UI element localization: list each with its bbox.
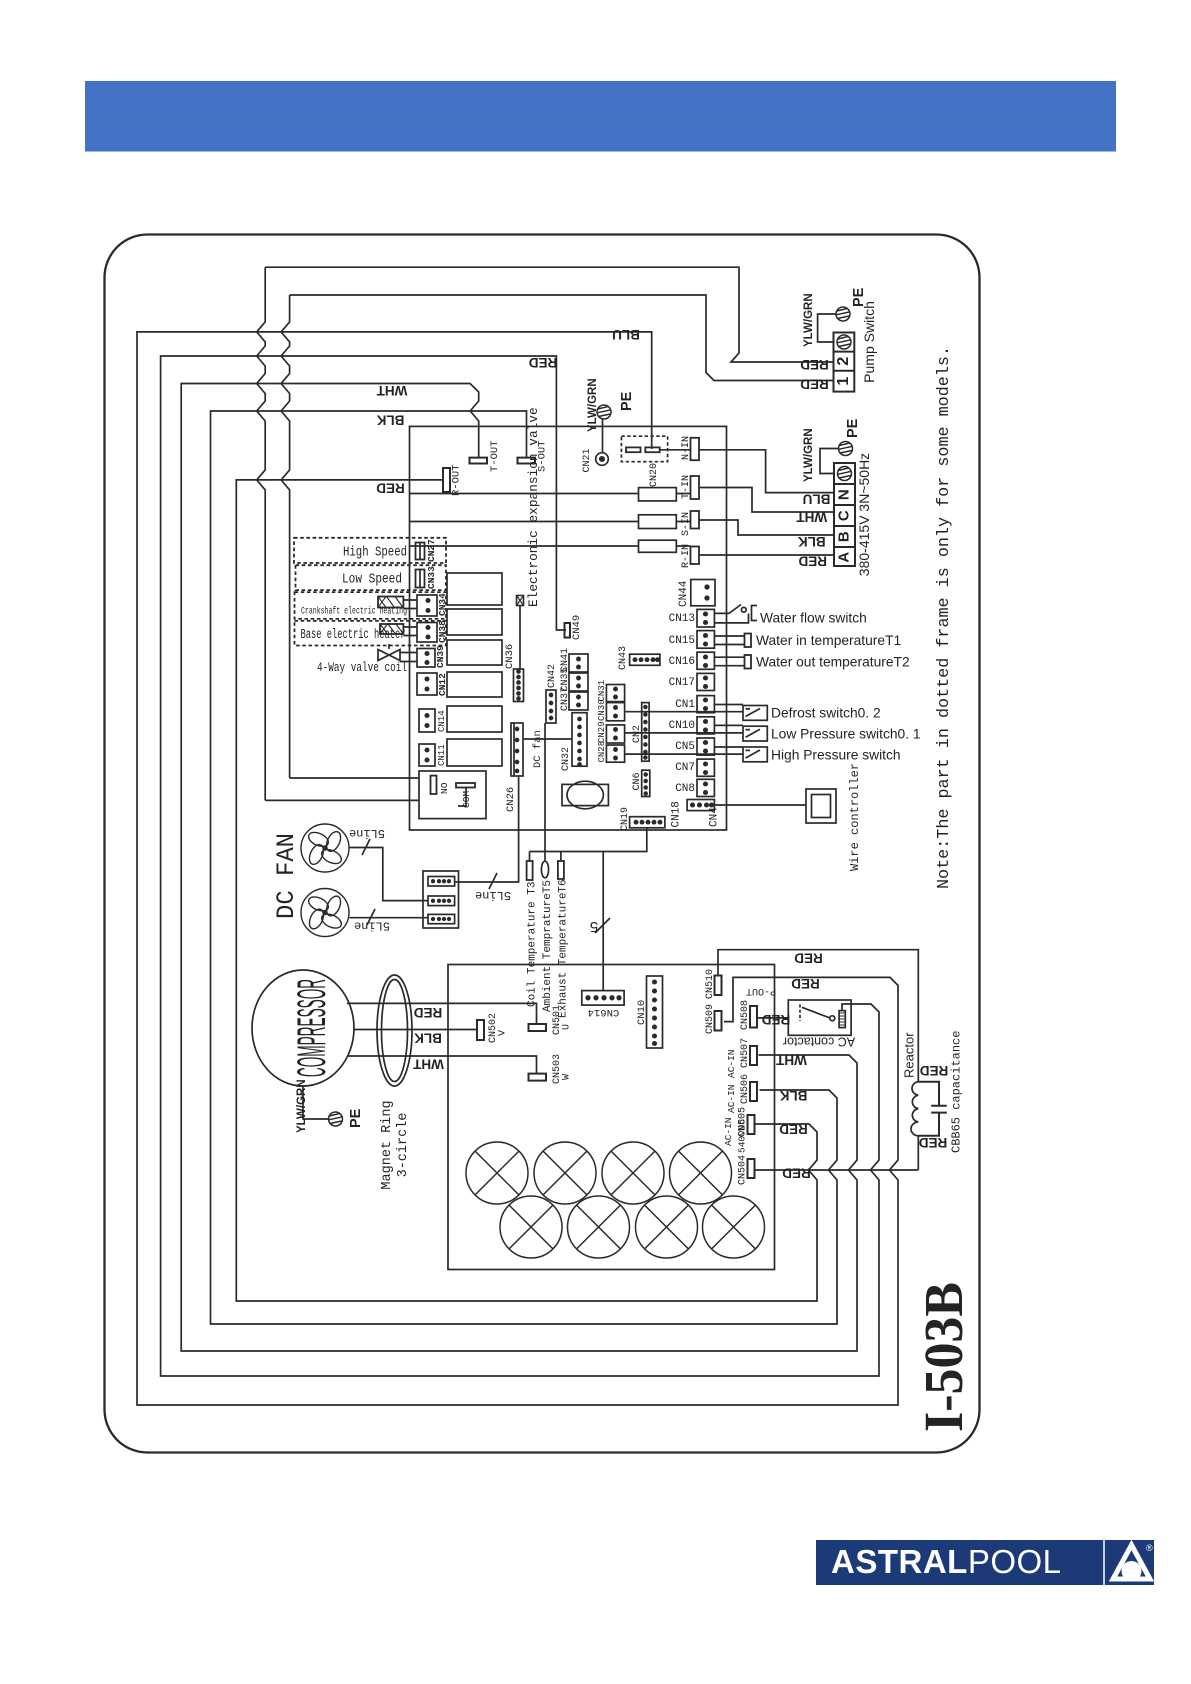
wires heater to CN34 — [403, 600, 417, 609]
svg-text:YLW/GRN: YLW/GRN — [296, 1079, 308, 1133]
svg-text:U: U — [562, 1024, 573, 1030]
wire 5line row1 up to PCB — [455, 777, 519, 882]
water flow switch contact circle — [741, 607, 746, 612]
svg-text:CN49: CN49 — [571, 615, 583, 640]
svg-text:High Speed: High Speed — [343, 546, 407, 561]
CN49 connector bar — [565, 623, 571, 638]
CN504 row wire with hops, to reactor bottom column — [755, 1018, 919, 1170]
reactor coil bumps — [911, 1082, 918, 1170]
crankshaft heater resistor — [378, 597, 403, 608]
svg-text:CN29: CN29 — [597, 721, 607, 743]
svg-text:CBB65 capacitance: CBB65 capacitance — [950, 1031, 964, 1153]
svg-text:Magnet Ring: Magnet Ring — [380, 1100, 395, 1189]
svg-text:B: B — [836, 531, 853, 542]
svg-text:CN614: CN614 — [588, 1006, 620, 1018]
CN39 connector — [417, 649, 435, 668]
svg-text:540VDC: 540VDC — [737, 1118, 748, 1153]
CN27 connector bar — [416, 543, 425, 560]
svg-text:BLU: BLU — [612, 327, 640, 342]
wire fan2 to connector row3 — [350, 917, 429, 919]
svg-text:CN506: CN506 — [740, 1074, 751, 1104]
svg-text:DC FAN: DC FAN — [272, 833, 301, 919]
svg-text:CN39: CN39 — [435, 645, 446, 668]
svg-text:RED: RED — [798, 553, 827, 568]
CN501 bar — [529, 1024, 547, 1031]
slash fan2 wire — [367, 909, 375, 925]
magnet ring inner — [382, 980, 408, 1082]
svg-text:CN14: CN14 — [437, 710, 447, 732]
svg-text:Exhaust TemperatureT6: Exhaust TemperatureT6 — [558, 879, 570, 1018]
svg-text:2: 2 — [835, 357, 852, 366]
svg-text:CN12: CN12 — [437, 673, 448, 696]
svg-text:RED: RED — [800, 357, 829, 372]
low pressure switch symbol — [743, 726, 767, 741]
svg-text:PE: PE — [845, 418, 861, 438]
CN614 connector — [582, 991, 624, 1006]
pump switch PE cell screw — [837, 335, 851, 349]
wire defrost switch — [714, 704, 743, 706]
CN2 connector — [642, 703, 649, 762]
wire pump1: top corner2, right, down to pump cell 1, relay box at bottom — [290, 295, 834, 778]
NO COM relay box — [419, 771, 486, 819]
svg-text:RED: RED — [920, 1063, 949, 1078]
svg-text:RED: RED — [800, 377, 829, 392]
T-IN fuse bar — [691, 476, 700, 499]
svg-text:C: C — [836, 510, 853, 521]
svg-text:RED: RED — [919, 1135, 948, 1150]
heatsink circle r1c4 — [670, 1142, 732, 1204]
wires heater2 to CN38 — [403, 627, 417, 636]
fan connector row3 — [428, 914, 455, 923]
compressor PE screw — [329, 1112, 343, 1126]
svg-text:Ambient TempratureT5: Ambient TempratureT5 — [542, 880, 554, 1012]
svg-text:CN42: CN42 — [547, 664, 558, 688]
svg-text:R-IN: R-IN — [681, 544, 692, 568]
svg-text:R-OUT: R-OUT — [451, 464, 463, 496]
svg-text:3-circle: 3-circle — [396, 1113, 411, 1178]
svg-text:CN32: CN32 — [561, 747, 572, 771]
wire COM stub — [458, 788, 466, 807]
svg-text:Defrost switch0. 2: Defrost switch0. 2 — [771, 706, 881, 721]
svg-text:RED: RED — [529, 355, 558, 370]
CBB65 capacitor branch — [918, 1082, 947, 1136]
CN38 connector — [417, 623, 437, 643]
CN11 connector — [419, 744, 435, 766]
relay K4 — [447, 672, 502, 697]
svg-text:Water flow switch: Water flow switch — [760, 611, 867, 626]
svg-text:P-OUT: P-OUT — [746, 985, 776, 996]
wire PE to CN21 — [602, 419, 604, 453]
svg-text:CN16: CN16 — [669, 656, 695, 668]
svg-text:CN34: CN34 — [437, 593, 448, 616]
pump switch PE screw external — [836, 307, 850, 321]
wire T-IN row — [410, 488, 835, 513]
CN42 connector — [546, 690, 556, 723]
CN510 top wire row to reactor top — [718, 950, 918, 1082]
AC contactor box — [788, 1000, 851, 1035]
compressor circle — [252, 970, 354, 1086]
wire T5 sensor to CN42 — [544, 723, 546, 852]
CN503 bar — [529, 1074, 547, 1081]
svg-text:WHT: WHT — [775, 1053, 806, 1068]
svg-text:5Line: 5Line — [354, 919, 390, 933]
CN510 connector bar — [715, 976, 722, 996]
wire CN30 to defrost — [625, 711, 743, 713]
header blue bar — [85, 81, 1116, 152]
svg-text:CN26: CN26 — [505, 787, 517, 812]
svg-text:Note:The part in dotted frame: Note:The part in dotted frame is only fo… — [935, 346, 954, 889]
wire loop4 BLK: S-OUT up, Y411, left col4, bottom, right col to CN506 — [211, 411, 838, 1324]
svg-text:CN510: CN510 — [705, 969, 716, 999]
CN507 connector bar — [750, 1046, 757, 1065]
svg-text:PE: PE — [619, 391, 635, 411]
wire loop5 RED: R-OUT, Y479.9, left col5, bottom, right col to CN505 — [236, 480, 817, 1301]
wire CN29 to low pressure — [625, 732, 743, 734]
svg-text:5Line: 5Line — [475, 888, 511, 902]
breaker rect R row — [639, 540, 677, 552]
relay K1 — [447, 573, 502, 605]
heatsink circle r2c3 — [636, 1196, 698, 1258]
svg-text:PE: PE — [348, 1108, 364, 1128]
CN506 connector bar — [750, 1082, 757, 1101]
fan connector row1 — [428, 877, 455, 887]
relay K2 — [447, 609, 502, 635]
svg-text:CN504: CN504 — [738, 1155, 749, 1185]
sensor T6 bar — [558, 861, 564, 879]
CN20 jumper pad left — [626, 447, 641, 452]
CN8 connector — [697, 779, 714, 796]
svg-text:CN17: CN17 — [669, 677, 695, 689]
NO contact bar — [431, 776, 437, 794]
svg-text:CN20: CN20 — [649, 463, 660, 487]
svg-text:YLW/GRN: YLW/GRN — [803, 428, 815, 482]
CN20 jumper pad right — [645, 447, 659, 452]
wire CN28 to high pressure — [625, 753, 743, 755]
CN5 connector — [697, 738, 714, 755]
heatsink circle r1c3 — [602, 1142, 664, 1204]
fan connector box — [423, 871, 459, 928]
sensor T3 bar — [527, 861, 533, 880]
heatsink circle r1c1 — [466, 1142, 528, 1204]
R-OUT terminal bar — [443, 468, 450, 492]
svg-text:T-OUT: T-OUT — [489, 440, 501, 472]
svg-text:RED: RED — [762, 1012, 791, 1027]
wire loop1 BLU: CN20 up, top, left col, bottom, right col to CN509 row — [137, 332, 898, 1405]
svg-text:W: W — [562, 1074, 573, 1080]
main PCB outline box — [410, 426, 727, 830]
T1 sensor symbol — [745, 634, 752, 648]
wire S-IN row — [410, 520, 835, 535]
svg-text:A: A — [836, 552, 853, 563]
svg-text:N-IN: N-IN — [681, 436, 692, 460]
CN18 connector — [687, 800, 714, 811]
CN37 connector — [569, 692, 588, 710]
wire N-IN row — [660, 450, 834, 493]
svg-text:BLK: BLK — [798, 534, 826, 549]
dashed box Low Speed — [296, 565, 447, 590]
inverter PCB box — [448, 965, 775, 1270]
CN44 connector — [691, 580, 715, 606]
wire water in temp T1 — [714, 636, 744, 645]
svg-text:AC-IN: AC-IN — [723, 1117, 734, 1146]
defrost switch symbol — [743, 706, 767, 721]
svg-text:WHT: WHT — [376, 383, 407, 398]
svg-text:BLK: BLK — [414, 1031, 442, 1046]
wire controller box — [806, 789, 836, 823]
svg-text:Water out temperatureT2: Water out temperatureT2 — [756, 655, 910, 670]
heatsink circle r2c2 — [568, 1196, 630, 1258]
svg-text:CN13: CN13 — [669, 613, 695, 625]
heatsink circle r1c2 — [534, 1142, 596, 1204]
svg-text:S-IN: S-IN — [681, 512, 692, 536]
svg-text:YLW/GRN: YLW/GRN — [803, 293, 815, 347]
AC contactor blade — [802, 1007, 830, 1018]
CN509 connector bar — [715, 1011, 722, 1031]
svg-text:Reactor: Reactor — [902, 1032, 917, 1078]
svg-text:CN30: CN30 — [597, 699, 607, 721]
transformer ellipse — [567, 781, 603, 809]
CN30 connector — [606, 703, 624, 721]
CN20 dashed jumper box — [621, 436, 667, 462]
Pump Switch terminal block — [834, 333, 855, 392]
svg-text:CN6: CN6 — [632, 772, 643, 790]
svg-text:WHT: WHT — [796, 510, 827, 525]
dashed box High Speed — [294, 538, 446, 563]
svg-text:AC contactor: AC contactor — [783, 1035, 855, 1049]
wire compressor RED to CN501 — [347, 1003, 537, 1024]
svg-text:V: V — [498, 1030, 509, 1036]
svg-text:RED: RED — [791, 976, 820, 991]
fan motor 2 — [301, 889, 349, 937]
svg-text:Electronic expansion valve: Electronic expansion valve — [526, 407, 541, 607]
svg-text:CN15: CN15 — [669, 635, 695, 647]
AC contactor coil — [839, 1011, 845, 1028]
schematic outer border — [105, 235, 980, 1453]
T2 sensor symbol — [745, 655, 752, 669]
AC contactor moving contact circle — [830, 1016, 835, 1021]
CN33 connector bar — [416, 570, 425, 588]
svg-text:CN27: CN27 — [426, 539, 437, 562]
svg-text:Coil Temperature T3: Coil Temperature T3 — [527, 882, 539, 1007]
slash 5 wire CN614 — [595, 918, 610, 933]
svg-text:Low Pressure switch0. 1: Low Pressure switch0. 1 — [771, 727, 921, 742]
svg-text:5Line: 5Line — [349, 826, 385, 840]
svg-text:RED: RED — [414, 1005, 443, 1020]
svg-text:CN36: CN36 — [504, 644, 516, 669]
wire high pressure switch — [714, 746, 743, 748]
slash fan1 wire — [362, 839, 370, 855]
svg-text:Wire controller: Wire controller — [848, 763, 862, 871]
breaker rect T row — [639, 488, 677, 501]
relay K5 — [447, 706, 502, 732]
svg-text:Base electric heater: Base electric heater — [301, 628, 406, 643]
wire CN19 chain to sensors and CN614 — [530, 828, 647, 991]
CN13 connector — [697, 609, 714, 627]
svg-text:1: 1 — [835, 377, 852, 386]
breaker rect S row — [639, 515, 677, 529]
CN14 connector — [419, 709, 435, 732]
CN34 connector — [417, 595, 437, 616]
CN504 connector bar — [748, 1159, 755, 1178]
svg-text:RED: RED — [376, 481, 405, 496]
wire compressor PE — [303, 1086, 329, 1119]
svg-text:CN44: CN44 — [678, 580, 690, 607]
svg-text:CN4: CN4 — [709, 807, 721, 827]
wire R-IN row — [410, 546, 835, 555]
svg-text:380-415V 3N~50Hz: 380-415V 3N~50Hz — [856, 453, 872, 576]
svg-text:COM: COM — [461, 791, 472, 808]
wire CN26 to CN32 — [523, 738, 572, 740]
AC contactor fixed contact dashed — [799, 1005, 801, 1022]
wire loop2 EEV: CN49, up, Y356, left col2, bottom, right col to contactor coil — [161, 356, 879, 1376]
transformer holder rect — [562, 784, 608, 805]
svg-text:4-Way valve coil: 4-Way valve coil — [317, 661, 407, 675]
svg-text:CN11: CN11 — [437, 744, 447, 766]
CN36 connector — [514, 669, 524, 702]
svg-text:Pump Switch: Pump Switch — [861, 301, 877, 383]
svg-text:CN10: CN10 — [669, 720, 695, 732]
svg-text:NO: NO — [439, 782, 450, 794]
svg-text:CN509: CN509 — [705, 1004, 716, 1034]
CN43 connector — [630, 654, 660, 665]
wire EEV to CN36 — [519, 606, 521, 670]
svg-text:Crankshaft electric heating: Crankshaft electric heating — [301, 606, 407, 617]
wire CN18 to wire controller — [714, 804, 806, 806]
svg-text:CN10: CN10 — [636, 1000, 648, 1025]
N-IN fuse bar — [691, 438, 700, 460]
svg-text:CN1: CN1 — [675, 699, 695, 711]
dashed box Base electric heater — [295, 621, 447, 646]
svg-text:CN7: CN7 — [675, 762, 695, 774]
ABCN terminal block — [834, 463, 855, 566]
svg-text:N: N — [836, 489, 853, 500]
CN1 connector — [697, 696, 714, 713]
svg-text:AC-IN: AC-IN — [726, 1084, 737, 1113]
svg-text:®: ® — [1146, 1543, 1153, 1553]
svg-text:RED: RED — [782, 1166, 811, 1181]
electronic expansion valve symbol — [517, 596, 524, 606]
PE screw mid (CN21) — [597, 405, 611, 419]
left col6 with hops — [257, 267, 266, 800]
CN6 connector — [642, 770, 650, 796]
wire water out temp T2 — [714, 657, 744, 666]
T-OUT terminal bar — [470, 458, 488, 464]
heatsink circle r2c1 — [500, 1196, 562, 1258]
svg-text:CN507: CN507 — [740, 1038, 751, 1068]
svg-text:CN508: CN508 — [740, 1000, 751, 1030]
svg-text:ASTRALPOOL: ASTRALPOOL — [831, 1543, 1062, 1580]
left col7 with hops — [281, 295, 290, 778]
svg-text:RED: RED — [794, 951, 823, 966]
svg-text:T-IN: T-IN — [681, 475, 692, 499]
ABCN PE cell screw — [838, 467, 852, 481]
wire loop3 WHT: T-OUT up jog, Y383.5, left col3, bottom, right col to CN507 — [181, 384, 857, 1352]
svg-text:CN5: CN5 — [675, 741, 695, 753]
svg-text:Low Speed: Low Speed — [342, 573, 402, 588]
fan motor 1 — [301, 824, 349, 872]
CN32 connector — [572, 713, 587, 767]
svg-text:CN37: CN37 — [560, 687, 571, 711]
CN502 bar — [477, 1020, 484, 1040]
svg-text:YLW/GRN: YLW/GRN — [587, 378, 599, 432]
CN41 connector — [569, 654, 588, 672]
water flow switch bracket — [752, 606, 758, 621]
CN15 connector — [697, 631, 714, 649]
high pressure switch symbol — [743, 747, 767, 762]
CN16 connector — [697, 652, 714, 669]
svg-text:Water in temperatureT1: Water in temperatureT1 — [756, 633, 901, 648]
svg-text:CN18: CN18 — [671, 801, 683, 827]
svg-text:I-503B: I-503B — [913, 1282, 974, 1432]
CN10s connector — [697, 717, 714, 734]
AstralPool logo — [816, 1540, 1154, 1585]
svg-text:BLK: BLK — [376, 413, 404, 428]
ABCN PE screw external — [839, 442, 853, 456]
wire compressor BLK to CN502 — [354, 1029, 477, 1031]
fan connector row2 — [428, 896, 455, 906]
svg-text:CN33: CN33 — [426, 566, 437, 589]
CN17 connector — [697, 673, 714, 690]
wire pump PE ylw/grn — [818, 314, 836, 342]
COM contact bar — [456, 783, 475, 788]
svg-text:High Pressure switch: High Pressure switch — [771, 748, 901, 763]
svg-text:CN8: CN8 — [675, 783, 695, 795]
relay K3 — [447, 640, 502, 665]
CN31 connector — [606, 685, 624, 702]
svg-text:CN38: CN38 — [437, 620, 448, 643]
base heater resistor — [380, 624, 403, 634]
svg-text:DC fan: DC fan — [532, 730, 544, 768]
wires valve to CN39 — [389, 644, 417, 662]
sensor T5 ellipse — [541, 861, 548, 878]
S-OUT terminal bar — [518, 458, 536, 464]
svg-text:CN2: CN2 — [632, 725, 643, 743]
CN7 connector — [697, 759, 714, 776]
svg-text:CN31: CN31 — [597, 680, 607, 702]
wire fan1 to connector row2 — [349, 848, 428, 901]
svg-text:5: 5 — [589, 917, 598, 934]
svg-text:CN21: CN21 — [582, 448, 593, 472]
svg-text:COMPRESSOR: COMPRESSOR — [290, 979, 334, 1077]
CN21 ring terminal — [596, 453, 609, 466]
svg-text:AC-IN: AC-IN — [726, 1049, 737, 1078]
4-way valve coil symbol — [378, 650, 400, 661]
R-IN fuse bar — [691, 547, 700, 565]
wire water flow switch — [714, 605, 748, 623]
CN28 connector — [606, 745, 624, 762]
wire pump2: top corner, right, down, jog to pump cell 2, NO relay at bottom — [265, 267, 833, 800]
svg-text:CN28: CN28 — [597, 741, 607, 763]
CN12 connector — [417, 673, 437, 695]
CN29 connector — [606, 725, 624, 743]
wire ABCN PE ylw/grn — [820, 449, 838, 474]
wire low pressure switch — [714, 724, 743, 726]
svg-text:BLK: BLK — [779, 1088, 807, 1103]
CN35 connector — [569, 673, 588, 691]
svg-text:CN502: CN502 — [488, 1013, 499, 1043]
relay K6 — [447, 739, 502, 766]
wire compressor WHT to CN503 — [347, 1056, 537, 1074]
svg-text:WHT: WHT — [412, 1057, 443, 1072]
heatsink circle r2c4 — [703, 1196, 765, 1258]
magnet ring outer — [377, 975, 412, 1086]
dashed box Crankshaft electric heating — [295, 592, 447, 619]
svg-text:BLU: BLU — [803, 491, 831, 506]
svg-text:CN43: CN43 — [618, 646, 629, 670]
CN508 connector bar — [750, 1006, 757, 1028]
svg-text:RED: RED — [779, 1122, 808, 1137]
CN26 connector — [511, 723, 523, 776]
